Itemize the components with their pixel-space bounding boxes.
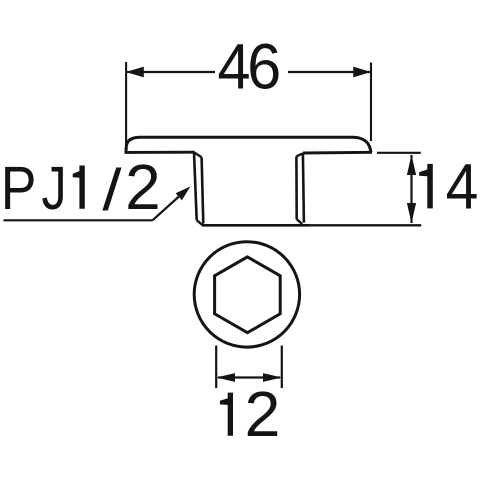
svg-text:4: 4	[446, 151, 479, 223]
flange bottom edge left	[125, 151, 195, 154]
svg-text:P: P	[1, 155, 37, 223]
dimension 46: left arrowhead	[126, 67, 144, 78]
dimension 46: right arrowhead	[353, 67, 371, 78]
dimension 12: right arrowhead	[263, 373, 282, 382]
flange outline (side view top cap)	[126, 137, 371, 152]
bottom view circle (plug body)	[194, 242, 299, 347]
stem left top chamfer	[194, 152, 202, 157]
svg-text:2: 2	[245, 378, 281, 450]
stem right outer line	[303, 153, 304, 222]
svg-text:6: 6	[247, 31, 281, 102]
svg-text:J: J	[42, 153, 67, 222]
stem right top chamfer	[296, 153, 303, 156]
stem left bottom chamfer	[197, 220, 203, 225]
leader underline	[4, 219, 153, 221]
dimension 14: vertical dimension line	[410, 155, 412, 223]
thread label "PJ1/2" digit 1	[73, 166, 85, 209]
hex socket (hexagon)	[215, 257, 281, 333]
leader diagonal line	[153, 191, 186, 220]
stem bottom edge	[202, 224, 310, 227]
stem right bottom chamfer	[297, 219, 303, 224]
flange bottom edge right	[303, 151, 372, 155]
dimension 12: dimension line	[218, 376, 280, 378]
dimension 12: right extension line	[281, 346, 283, 389]
dimension 14: value label "14" digit 1	[419, 164, 433, 209]
dimension 46: dimension line left segment	[127, 71, 215, 73]
dimension 12: left extension line	[215, 346, 217, 389]
dimension 46: right extension line	[370, 63, 372, 142]
dimension 12: left arrowhead	[216, 373, 235, 382]
dimension 46: dimension line right segment	[288, 71, 370, 73]
svg-text:/: /	[102, 157, 121, 223]
leader arrowhead	[176, 186, 191, 200]
stem left outer line	[194, 152, 197, 220]
dimension 12: value label "12" digit 1	[220, 393, 233, 436]
svg-text:2: 2	[125, 151, 161, 223]
dimension 46: left extension line	[125, 62, 127, 146]
stem left inner line	[202, 157, 204, 223]
svg-text:4: 4	[218, 31, 251, 103]
dimension 14: top extension line	[377, 152, 421, 154]
dimension 14: bottom arrowhead	[407, 203, 416, 223]
stem right inner line	[295, 156, 298, 219]
dimension 14: top arrowhead	[407, 155, 416, 175]
dimension 14: bottom extension line	[310, 224, 421, 226]
